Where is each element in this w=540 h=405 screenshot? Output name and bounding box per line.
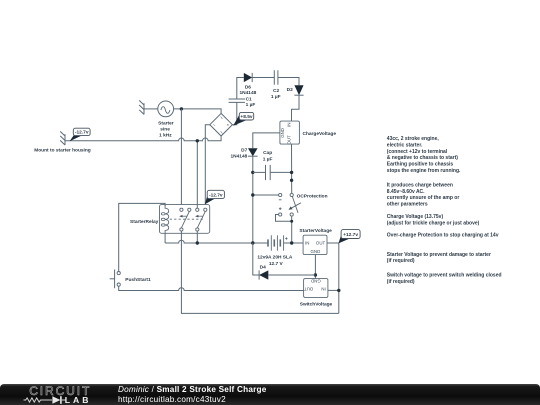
wire switch output to battery plus <box>291 216 293 243</box>
wire 0V to D4 cathode <box>253 243 259 275</box>
svg-text:1N4148: 1N4148 <box>239 90 256 96</box>
svg-text:Charge Voltage (13.75v): Charge Voltage (13.75v) <box>387 214 444 220</box>
svg-text:43cc, 2 stroke engine,: 43cc, 2 stroke engine, <box>387 136 440 142</box>
relay StarterRelay <box>130 205 210 234</box>
CircuitLab footer bar <box>0 384 540 405</box>
junction source node <box>180 107 183 110</box>
svg-text:(connect +12v to terminal: (connect +12v to terminal <box>387 149 448 155</box>
svg-text:IN: IN <box>286 123 291 127</box>
svg-text:D2: D2 <box>287 87 293 93</box>
note charge voltage <box>387 214 480 226</box>
svg-text:OUT: OUT <box>286 135 291 145</box>
wire PushStart1 to SwitchVoltage OUT <box>119 286 304 290</box>
wire ground to source V1 <box>144 108 158 110</box>
svg-text:1 µF: 1 µF <box>271 94 281 100</box>
svg-text:LAB: LAB <box>65 395 92 405</box>
svg-text:-12.7v: -12.7v <box>209 192 223 198</box>
note charge text <box>387 183 460 208</box>
diode D2 <box>287 85 304 95</box>
wire 0V bus left <box>165 240 268 243</box>
svg-text:1 kHz: 1 kHz <box>159 133 172 139</box>
wire SwitchVoltage IN to +12.7v line <box>328 289 339 291</box>
svg-text:1 µF: 1 µF <box>263 157 273 163</box>
subcircuit StarterVoltage <box>299 228 332 254</box>
junction D7net-0V <box>251 241 254 244</box>
svg-text:+8.5v: +8.5v <box>240 114 252 120</box>
wire pin3 from chassis bus <box>196 141 198 208</box>
junction IN-line <box>337 289 340 292</box>
svg-text:PushStart1: PushStart1 <box>125 277 151 283</box>
svg-text:1N4148: 1N4148 <box>230 153 247 159</box>
voltage source V1 Starter sine 1kHz <box>158 101 174 139</box>
svg-text:Starter: Starter <box>158 121 174 127</box>
wire D6 cathode to C2 <box>252 77 274 79</box>
diode D6 1N4148 <box>239 73 256 96</box>
svg-text:-12.7v: -12.7v <box>75 130 89 136</box>
junction cap-out node <box>290 171 293 174</box>
svg-text:(adjust for trickle charge or: (adjust for trickle charge or just above… <box>387 221 480 227</box>
junction switch-plus <box>290 220 293 223</box>
svg-text:(if required): (if required) <box>387 279 415 285</box>
net flag -12.7v relay <box>205 190 225 204</box>
wire ChargeVoltage OUT down to switch <box>291 144 293 193</box>
wire ChargeVoltage GND to D7 anode <box>253 133 280 148</box>
svg-text:Mount to starter housing: Mount to starter housing <box>34 148 91 154</box>
svg-text:1 µF: 1 µF <box>246 102 256 108</box>
subcircuit SwitchVoltage <box>300 278 333 307</box>
net flag -12.7v starter housing <box>70 128 91 141</box>
wire StarterVoltage GND down <box>314 255 316 279</box>
svg-text:12.7 V: 12.7 V <box>269 261 284 267</box>
wire bridge right corner to C1 <box>232 102 236 124</box>
ground chassis G1 <box>60 131 65 145</box>
wire relay pin1 bottom to +12.7v return <box>181 231 338 313</box>
svg-text:Earthing positive to chassis: Earthing positive to chassis <box>387 162 454 168</box>
capacitor Cap 1uF <box>253 150 292 180</box>
wire battery plus to StarterVoltage IN <box>284 242 304 244</box>
svg-text:currently unsure of the amp or: currently unsure of the amp or <box>387 195 460 201</box>
junction D7-cap node <box>251 171 254 174</box>
junction chassis-pin3 <box>196 139 199 142</box>
svg-text:8.45v~8.60v AC.: 8.45v~8.60v AC. <box>387 189 425 195</box>
junction GND-D4 <box>314 273 317 276</box>
wire OCProtection minus to D7 net <box>253 194 279 196</box>
capacitor C2 1uF <box>271 70 281 100</box>
svg-text:C1: C1 <box>246 96 252 102</box>
svg-text:electric starter.: electric starter. <box>387 143 423 149</box>
net flag +8.5v <box>233 112 254 125</box>
svg-text:stops the engine from running.: stops the engine from running. <box>387 168 461 174</box>
wire source node to relay pin1 <box>180 109 182 208</box>
wire C2 to D2 anode <box>278 78 299 86</box>
junction minus net <box>251 193 254 196</box>
svg-text:C2: C2 <box>273 88 279 94</box>
svg-text:SwitchVoltage: SwitchVoltage <box>300 301 333 307</box>
svg-text:+12.7v: +12.7v <box>343 232 358 238</box>
svg-text:IN: IN <box>305 240 309 245</box>
svg-text:(if required): (if required) <box>387 258 415 264</box>
wire -12.7v chassis bus <box>65 136 221 141</box>
svg-text:IN: IN <box>321 287 325 292</box>
wire coil top to PushStart1 <box>119 203 165 271</box>
wire source to bridge <box>174 109 222 114</box>
wire StarterVoltage OUT to +12.7v corner <box>327 243 339 313</box>
wire relay pin2 bottom to 0V bus <box>196 231 198 243</box>
svg-text:Starter Voltage to prevent dam: Starter Voltage to prevent damage to sta… <box>387 252 491 258</box>
svg-text:StarterVoltage: StarterVoltage <box>299 228 332 234</box>
wire bridge left corner to relay pin4 <box>205 125 210 209</box>
svg-text:Over-charge Protection to stop: Over-charge Protection to stop charging … <box>387 233 499 239</box>
junction pin2-0V <box>196 241 199 244</box>
svg-text:Cap: Cap <box>263 150 272 156</box>
logo resistor <box>24 398 53 402</box>
wire C1 top to D6 anode <box>237 78 244 100</box>
capacitor C1 1uF <box>229 96 256 108</box>
net flag +12.7v <box>338 230 360 244</box>
svg-text:Switch voltage to prevent swit: Switch voltage to prevent switch welding… <box>387 273 502 279</box>
logo diode <box>52 396 60 404</box>
wire OCProtection plus loop <box>276 215 292 222</box>
junction battery-switch <box>290 241 293 244</box>
wire D7 cathode to 0V bus <box>252 156 254 243</box>
svg-text:GND: GND <box>311 249 321 254</box>
svg-text:D7: D7 <box>241 147 247 153</box>
subcircuit ChargeVoltage <box>280 121 336 144</box>
bridge rectifier B1 <box>210 113 233 136</box>
svg-text:other parameters: other parameters <box>387 201 428 207</box>
wire D2 cathode to ChargeVoltage IN <box>292 95 300 121</box>
note engine text <box>387 136 461 174</box>
svg-text:12v9A 20H SLA: 12v9A 20H SLA <box>257 255 293 261</box>
svg-text:OUT: OUT <box>316 240 326 245</box>
pushbutton PushStart1 <box>110 270 151 289</box>
junction stub node <box>290 179 293 182</box>
note starter voltage <box>387 252 491 264</box>
wire coil bottom to 0V bus <box>164 233 166 243</box>
svg-text:ChargeVoltage: ChargeVoltage <box>303 131 337 137</box>
svg-text:OUT: OUT <box>304 287 314 292</box>
svg-text:GND: GND <box>311 278 321 283</box>
svg-text:GND: GND <box>280 128 285 138</box>
svg-text:& negative to chassis to start: & negative to chassis to start) <box>387 155 458 161</box>
svg-text:It produces charge between: It produces charge between <box>387 183 453 189</box>
svg-text:D6: D6 <box>245 84 251 90</box>
diode D7 1N4148 <box>230 147 257 159</box>
note switch voltage <box>387 273 502 285</box>
battery V2 12v9A 20H SLA <box>257 235 293 266</box>
svg-text:StarterRelay: StarterRelay <box>130 219 159 225</box>
relay switch OCProtection <box>279 193 328 216</box>
svg-text:D4: D4 <box>260 264 266 270</box>
svg-text:sine: sine <box>160 127 170 133</box>
wire D4 anode to GND node <box>268 274 315 276</box>
svg-text:OCProtection: OCProtection <box>297 193 328 199</box>
ground chassis G2 <box>139 100 144 114</box>
diode D4 <box>259 264 268 279</box>
